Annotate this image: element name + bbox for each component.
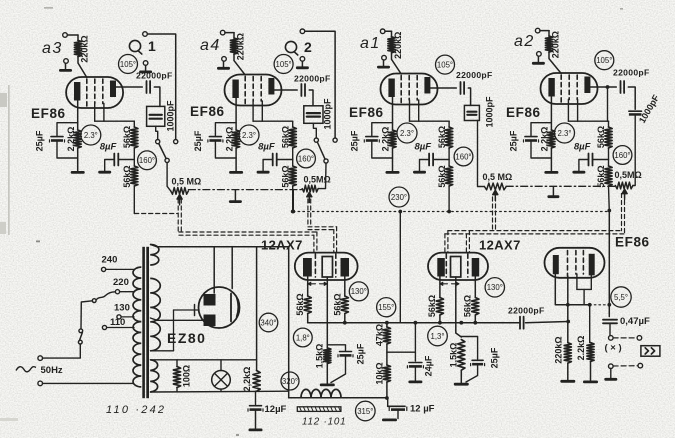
EF86 V2 cathode [232, 80, 238, 99]
node 155V [377, 298, 396, 317]
wire 56k tail (stage 3) [447, 186, 451, 213]
svg-text:220kΩ: 220kΩ [554, 336, 564, 363]
svg-text:1000pF: 1000pF [323, 98, 333, 130]
wire cathode (stage 4) [550, 97, 552, 131]
svg-text:0,5 MΩ: 0,5 MΩ [483, 172, 513, 182]
12AX7 V5 grid 2 [335, 254, 337, 277]
svg-text:22000pF: 22000pF [613, 68, 650, 78]
wire 220k gnd (V7) [567, 363, 569, 380]
svg-text:56kΩ: 56kΩ [280, 126, 290, 148]
EF86 V7 grid g2 [575, 251, 577, 275]
EF86 V2 grid g3 [260, 77, 262, 102]
EF86 V2 grid g1 [244, 77, 246, 104]
svg-text:( × ): ( × ) [605, 343, 622, 354]
EF86 V4 grid g2 [568, 75, 570, 100]
wire 8uF to ground (stage 1) [105, 160, 115, 171]
svg-text:56kΩ: 56kΩ [463, 295, 473, 317]
svg-text:2: 2 [304, 39, 312, 55]
svg-text:56kΩ: 56kΩ [122, 126, 132, 148]
EF86 V1 anode [110, 81, 116, 98]
svg-text:2.3°: 2.3° [400, 129, 414, 138]
wire cathode to ground (stage 4) [550, 148, 552, 171]
capacitor 24uF [407, 323, 433, 381]
node 5.5V [611, 287, 631, 307]
capacitor 22000pF (stage 3) [456, 70, 493, 94]
node (X) label [605, 343, 622, 354]
svg-text:2,2kΩ: 2,2kΩ [242, 367, 252, 392]
node 160V (stage 1) [138, 151, 157, 170]
ground (12uF second) [382, 419, 397, 422]
EF86 V3 grid g1 [400, 76, 402, 103]
wire cathode (stage 1) [77, 101, 79, 131]
wire screen bus (stage 3) [410, 100, 450, 127]
wire cathode to ground (stage 3) [392, 148, 394, 171]
EZ80 label [167, 330, 206, 346]
svg-text:130°: 130° [351, 287, 367, 296]
ground terminal (stage 2) [222, 57, 227, 62]
switch mains [78, 329, 82, 344]
capacitor 22000pF coupling (driver) [508, 306, 545, 329]
EF86 V4 envelope [541, 73, 598, 104]
wire cathode (stage 3) [392, 97, 394, 130]
svg-text:100Ω: 100Ω [182, 365, 192, 387]
svg-text:25µF: 25µF [509, 130, 519, 151]
node 130V (V6) [485, 278, 504, 297]
resistor 2.2kohm cathode (stage 1) [66, 127, 81, 152]
resistor 56kohm anode a (V6) [427, 295, 443, 317]
ground (24uF) [408, 381, 422, 384]
EF86 V3 grid g2 [408, 76, 410, 101]
wire 8uF to ground (stage 4) [579, 160, 589, 171]
svg-text:220kΩ: 220kΩ [551, 31, 561, 58]
wire 25uF bottom (stage 4) [531, 142, 551, 158]
wire anode (stage 3) [430, 87, 456, 89]
ground (output terminal) [604, 378, 617, 381]
resistor 47kohm [374, 323, 390, 346]
wire cathode to ground (stage 1) [77, 148, 79, 171]
svg-text:1,8°: 1,8° [296, 333, 310, 342]
svg-text:EZ80: EZ80 [167, 330, 206, 346]
label 50Hz [16, 365, 63, 376]
svg-text:130: 130 [114, 302, 130, 313]
wire anode b down (V6) [474, 277, 476, 298]
wire 56k junction (stage 3) [448, 148, 450, 166]
resistor 2.2kohm cathode (stage 4) [540, 127, 555, 152]
EF86 V7 label [615, 235, 650, 250]
wire screen bus (stage 4) [568, 100, 608, 128]
12AX7 V5 label [261, 238, 303, 253]
svg-text:105°: 105° [276, 60, 292, 69]
12AX7 V6 anode a [437, 258, 445, 277]
svg-text:340°: 340° [260, 318, 276, 327]
ground (stage 1 input) [59, 63, 72, 72]
svg-text:2.3°: 2.3° [558, 129, 572, 138]
svg-text:a2: a2 [514, 33, 535, 50]
svg-text:a3: a3 [42, 40, 63, 57]
capacitor 8uF (stage 4) [574, 142, 609, 166]
wire 10k to choke line [385, 382, 389, 400]
capacitor 8uF (stage 1) [100, 142, 135, 166]
ground (stage 4 cathode) [544, 171, 558, 174]
svg-text:56kΩ: 56kΩ [280, 165, 290, 187]
ground terminal (stage 4) [537, 52, 542, 57]
wire 56k tail (stage 1) [133, 186, 135, 214]
EF86 V1 grid g3 [102, 79, 104, 104]
capacitor 8uF (stage 3) [415, 142, 450, 166]
svg-text:160°: 160° [139, 156, 155, 165]
wire anode (stage 4) [590, 86, 616, 88]
12AX7 V6 anode b [472, 258, 480, 277]
node 340V [259, 313, 278, 332]
ground (pot bus 1-2) [229, 190, 242, 203]
jack 1 terminal hot [143, 32, 176, 140]
EF86 V1 grid g1 [86, 79, 88, 106]
ground (stage 2 cathode) [229, 171, 243, 174]
svg-text:110: 110 [110, 317, 125, 328]
node a4 input label [200, 37, 221, 54]
svg-text:24µF: 24µF [424, 355, 434, 376]
svg-text:130°: 130° [487, 283, 503, 292]
terminal mains L [38, 356, 43, 361]
svg-text:0,5MΩ: 0,5MΩ [304, 174, 331, 184]
svg-text:56kΩ: 56kΩ [437, 165, 447, 187]
EF86 V7 grid g1 [567, 251, 569, 277]
jack 1 symbol [129, 38, 156, 54]
wire anode (stage 2) [274, 89, 297, 91]
wire bus riser x293 [291, 190, 295, 214]
svg-text:320°: 320° [282, 377, 298, 386]
svg-text:50Hz: 50Hz [41, 365, 63, 376]
ground (stage 2 input) [217, 61, 230, 70]
12AX7 V6 label [479, 238, 521, 253]
node 1.3V [428, 326, 448, 346]
wire coupling out (stage 3) [468, 88, 470, 105]
capacitor 25uF (V6) [461, 337, 499, 383]
wire screened pair B horiz [308, 227, 337, 230]
12AX7 V5 grid 1 [314, 254, 316, 277]
wire grid (stage 4) [549, 52, 561, 73]
svg-text:160°: 160° [298, 154, 314, 163]
EZ80 V8 envelope [199, 287, 240, 328]
wire screened pair C drop1 [445, 231, 448, 253]
svg-text:25µF: 25µF [356, 343, 366, 364]
wire rail after cap [526, 320, 571, 324]
ground (V6 cathode) [454, 383, 469, 386]
capacitor 8uF (stage 2) [258, 142, 293, 166]
node 230V [389, 187, 409, 207]
EF86 label (stage 2) [190, 104, 225, 119]
resistor 56kohm screen upper (stage 4) [596, 126, 612, 148]
capacitor 25uF (stage 1) [35, 130, 65, 151]
12AX7 V5 envelope [295, 253, 358, 280]
ground (pot bus 3-4) [547, 187, 559, 198]
svg-text:112 ·101: 112 ·101 [302, 417, 346, 428]
svg-text:5,5°: 5,5° [614, 293, 628, 302]
terminal output upper right [637, 336, 642, 341]
transformer T1 secondary heater [150, 360, 159, 392]
capacitor 1000pF (stage 3) [464, 96, 494, 128]
wire output column [608, 212, 610, 317]
wire heater top rail [150, 359, 256, 361]
ground terminal (stage 3) [382, 55, 387, 60]
resistor 1.5kohm cathode (V5) [315, 344, 331, 369]
wire to pot (stage 4) [633, 116, 635, 186]
resistor 220kohm grid (V7) [554, 336, 572, 363]
wire 56kb to rail (V6) [474, 315, 476, 323]
node 2.3V (stage 4) [555, 123, 575, 143]
svg-text:240: 240 [102, 255, 118, 266]
svg-text:105°: 105° [437, 60, 453, 69]
svg-text:8µF: 8µF [415, 142, 432, 153]
jack 1 terminal gnd [143, 61, 148, 66]
wire 56k tail (stage 2) [291, 186, 295, 213]
resistor 56kohm anode b (V5) [332, 293, 348, 315]
wire dotted out link [590, 303, 611, 307]
node 130V (V5) [349, 282, 368, 301]
potentiometer 0.5M P1 [171, 176, 202, 205]
terminal output upper left [609, 336, 614, 341]
input terminal (stage 3) [380, 29, 391, 34]
node 2.3V (stage 3) [397, 123, 417, 143]
capacitor 25uF (stage 3) [349, 130, 379, 151]
capacitor 22000pF (stage 2) [294, 74, 331, 97]
wire 25uF top (stage 2) [215, 123, 236, 136]
12AX7 V6 envelope [428, 253, 488, 280]
resistor 220kohm grid (stage 3) [388, 31, 403, 59]
wire to pot (stage 3) [478, 121, 485, 187]
resistor 56kohm screen lower (stage 1) [122, 165, 138, 187]
wire coupling out (stage 1) [154, 87, 160, 106]
wire mains N [43, 382, 133, 384]
svg-text:12 µF: 12 µF [410, 404, 435, 415]
label 110-242 [106, 404, 166, 416]
switch (stage 1) [156, 140, 178, 163]
ground (12uF first) [249, 411, 263, 431]
EF86 V3 anode [424, 77, 430, 94]
potentiometer 0.5M P2 [302, 174, 331, 202]
wire screened pair C horiz [445, 231, 625, 234]
node a3 input label [42, 40, 63, 57]
label 130 tap [114, 302, 134, 319]
wire selector flex2 [96, 292, 115, 300]
wire 47k-10k junction [387, 344, 416, 365]
resistor 56kohm screen upper (stage 2) [280, 126, 296, 148]
wire cathode gnd (V6) [460, 370, 462, 383]
EF86 V7 cathode [553, 255, 559, 274]
ground (stage 3 input) [377, 60, 390, 69]
svg-text:155°: 155° [378, 303, 394, 312]
resistor 56kohm anode b (V6) [463, 295, 479, 317]
svg-text:a1: a1 [360, 35, 381, 52]
capacitor 22000pF (stage 1) [136, 71, 173, 94]
wire box to switch (stage 1) [156, 126, 158, 139]
input terminal (stage 2) [220, 30, 234, 35]
wire cathode top [231, 247, 233, 289]
node 320V [281, 372, 299, 390]
input terminal (stage 4) [535, 28, 549, 33]
ground (stage 2 8uF) [257, 171, 270, 174]
resistor 2.2kohm cathode (stage 3) [381, 127, 396, 152]
wire HT top lead [150, 245, 288, 247]
wire dashed link (stage 1) [135, 213, 178, 215]
EF86 V2 envelope [225, 75, 282, 106]
label 220 tap [113, 277, 134, 294]
resistor 1.5kohm cathode (V6) [449, 340, 465, 371]
EF86 V3 cathode [388, 79, 394, 98]
wire grid (stage 1) [78, 57, 87, 78]
wire 56k junction (stage 2) [292, 148, 294, 166]
svg-text:25µF: 25µF [490, 347, 500, 368]
jack 2 terminal gnd [300, 57, 305, 62]
wire coupling out (stage 4) [606, 85, 636, 109]
wire 25uF bottom (stage 2) [215, 142, 236, 158]
EF86 label (stage 3) [349, 105, 384, 120]
wire 56k junction (stage 1) [133, 148, 135, 166]
wire cap to terminal [609, 323, 611, 335]
node 105V (stage 3) [436, 55, 455, 74]
svg-text:315°: 315° [357, 407, 373, 416]
resistor 56kohm anode a (V5) [295, 293, 311, 315]
svg-text:22000pF: 22000pF [294, 74, 331, 84]
svg-text:22000pF: 22000pF [508, 306, 545, 316]
svg-text:25µF: 25µF [193, 130, 203, 151]
svg-text:0,5MΩ: 0,5MΩ [615, 170, 642, 180]
wire g2g3 bar (V7) [577, 274, 591, 305]
resistor 2.2kohm (V7) [576, 305, 594, 362]
svg-text:2.2kΩ: 2.2kΩ [66, 127, 76, 152]
wire switch up [81, 299, 96, 329]
wire anode b down (V5) [344, 277, 346, 297]
node 2.3V (stage 1) [81, 125, 101, 145]
svg-text:EF86: EF86 [506, 105, 541, 120]
12AX7 V6 cathode [451, 257, 461, 278]
jack output symbol [641, 346, 660, 357]
wire 8uF to ground (stage 3) [420, 160, 430, 171]
svg-text:105°: 105° [596, 56, 612, 65]
wire anode a down (V5) [307, 277, 309, 297]
choke 112-101 [297, 389, 346, 427]
12AX7 V5 anode b [341, 258, 350, 277]
transformer T1 primary [133, 267, 141, 387]
EF86 V7 anode [589, 254, 595, 276]
wire B+ rail [308, 321, 519, 325]
EF86 V3 grid g3 [416, 76, 418, 101]
12AX7 V6 grid 1 [445, 254, 447, 277]
capacitor 22000pF (stage 4) [613, 68, 650, 94]
wire anode2 lead [150, 318, 203, 320]
wire 25uF top (stage 1) [57, 123, 78, 136]
wire B+ dotted bus [293, 209, 611, 214]
transformer T1 core [142, 247, 149, 398]
svg-text:2.2kΩ: 2.2kΩ [224, 127, 234, 152]
svg-text:230°: 230° [391, 193, 407, 202]
wire 25uF bottom (stage 3) [372, 142, 393, 158]
EF86 V4 grid g1 [560, 75, 562, 102]
svg-text:12µF: 12µF [265, 404, 287, 415]
EF86 V1 cathode [74, 82, 80, 101]
wire lower terminal gnd [610, 369, 612, 378]
node 160V (stage 2) [297, 149, 316, 168]
wire heater mid [150, 305, 198, 351]
EF86 label (stage 4) [506, 105, 541, 120]
12AX7 V5 heater arrows [308, 282, 327, 285]
svg-text:25µF: 25µF [35, 130, 45, 151]
capacitor 1000pF (stage 1) [147, 100, 176, 132]
ground (stage 4 8uF) [572, 171, 585, 174]
ground (stage 3 cathode) [386, 171, 400, 174]
terminal output lower left [609, 364, 614, 369]
svg-text:220: 220 [113, 277, 129, 288]
resistor 100ohm [173, 360, 191, 391]
capacitor 1000pF (stage 4) [629, 93, 661, 125]
ground (jack 1) [139, 65, 152, 73]
resistor 56kohm screen lower (stage 3) [437, 165, 453, 187]
12AX7 V6 grid 2 [467, 254, 469, 277]
resistor 56kohm screen lower (stage 4) [596, 165, 612, 187]
svg-text:1: 1 [148, 38, 156, 54]
wire bus drop x400 [399, 212, 401, 323]
EF86 V1 envelope [66, 77, 123, 108]
svg-text:105°: 105° [120, 60, 136, 69]
wire pot gnd bus 3-4 [506, 185, 615, 187]
EF86 V2 anode [268, 78, 274, 95]
wire screened pair B drop [334, 227, 337, 253]
12AX7 V6 heater arrows [440, 282, 459, 285]
svg-text:110 ·242: 110 ·242 [106, 404, 166, 416]
resistor 10kohm [374, 362, 390, 384]
wire 25uF top (stage 3) [372, 123, 393, 136]
svg-text:1,3°: 1,3° [431, 332, 445, 341]
svg-text:56kΩ: 56kΩ [427, 295, 437, 317]
wire box to switch (stage 2) [313, 123, 316, 138]
svg-text:2.2kΩ: 2.2kΩ [576, 336, 586, 361]
node 105V (stage 1) [119, 55, 138, 74]
wire cathode (stage 2) [235, 98, 237, 130]
svg-text:0,47µF: 0,47µF [620, 316, 650, 327]
svg-text:25µF: 25µF [349, 130, 359, 151]
jack 2 terminal hot [300, 29, 335, 138]
wire 8uF to ground (stage 2) [263, 160, 273, 171]
svg-text:1,5kΩ: 1,5kΩ [449, 343, 459, 368]
terminal mains N [38, 381, 43, 386]
transformer T1 secondary HT-top [150, 245, 159, 266]
capacitor 12uF second [388, 398, 435, 419]
svg-text:160°: 160° [614, 151, 630, 160]
capacitor 25uF (stage 4) [509, 130, 539, 151]
wire 25uF top (stage 4) [531, 123, 551, 136]
node 315V [356, 401, 376, 421]
ground (stage 1 8uF) [98, 171, 111, 174]
wire cathode (V6) [456, 277, 462, 337]
ground (stage 3 8uF) [413, 171, 426, 174]
EF86 V7 grid g3 [582, 251, 584, 275]
wire 56k junction (stage 4) [608, 148, 610, 166]
wire terminal link lower [613, 365, 638, 367]
svg-text:56kΩ: 56kΩ [332, 293, 342, 315]
EF86 V3 envelope [381, 74, 438, 105]
wire cathode gnd (V5) [326, 364, 328, 384]
svg-text:EF86: EF86 [190, 104, 225, 119]
wire terminal link upper [613, 337, 637, 339]
wire to pot (stage 1) [167, 163, 171, 191]
potentiometer 0.5M P3 [483, 172, 513, 200]
input terminal (stage 1) [63, 33, 78, 38]
wire anode (stage 1) [116, 86, 142, 88]
12AX7 V5 anode a [303, 258, 312, 277]
node 160V (stage 4) [613, 146, 632, 165]
wire heater bottom rail [150, 390, 288, 393]
svg-text:a4: a4 [200, 37, 221, 54]
